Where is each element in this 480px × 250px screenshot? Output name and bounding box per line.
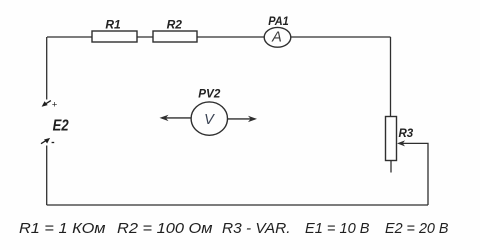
svg-text:PA1: PA1	[268, 16, 289, 28]
wire R3 bottom stub	[390, 161, 392, 173]
wire bottom horizontal	[47, 204, 428, 206]
resistor R2	[153, 31, 197, 42]
svg-text:R2 = 100 Ом: R2 = 100 Ом	[117, 220, 213, 237]
wire right vertical upper	[390, 37, 392, 117]
svg-text:E2: E2	[53, 118, 69, 135]
voltmeter left arrow	[160, 115, 191, 121]
svg-text:R1 = 1 КОм: R1 = 1 КОм	[19, 220, 106, 237]
voltmeter PV2	[191, 102, 227, 135]
svg-text:R2: R2	[167, 17, 183, 31]
resistor R3	[386, 117, 397, 161]
resistor R1	[92, 31, 137, 42]
wire R3 wiper branch	[397, 140, 428, 205]
voltmeter right arrow	[227, 116, 257, 122]
svg-text:A: A	[271, 29, 282, 45]
source E2 minus terminal	[41, 138, 50, 144]
svg-text:V: V	[204, 112, 215, 128]
svg-text:+: +	[52, 100, 58, 111]
svg-text:R1: R1	[105, 17, 121, 31]
ammeter PA1	[264, 27, 291, 47]
wire top horizontal	[47, 36, 391, 38]
svg-text:R3 - VAR.: R3 - VAR.	[222, 220, 291, 237]
wire left vertical lower	[46, 146, 48, 206]
source E2 plus terminal	[42, 101, 51, 107]
label minus	[52, 142, 55, 144]
svg-text:E2 = 20 В: E2 = 20 В	[385, 220, 449, 237]
svg-text:E1 = 10 В: E1 = 10 В	[305, 220, 370, 237]
wire left vertical upper	[46, 37, 48, 100]
caption values line	[19, 220, 449, 237]
svg-text:R3: R3	[399, 128, 414, 140]
svg-text:PV2: PV2	[198, 87, 220, 101]
